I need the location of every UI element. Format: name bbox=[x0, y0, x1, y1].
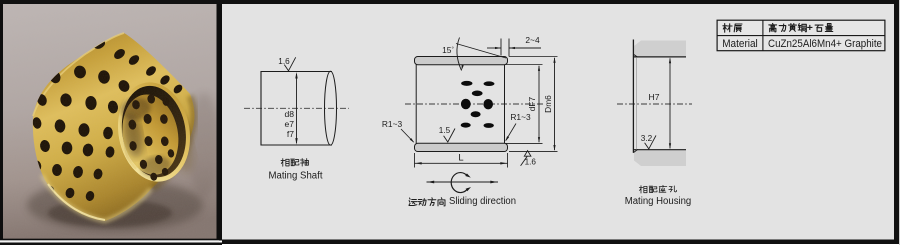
svg-text:1.6: 1.6 bbox=[525, 157, 537, 166]
svg-text:R1~3: R1~3 bbox=[510, 112, 531, 122]
svg-text:H7: H7 bbox=[649, 92, 660, 102]
svg-text:+: + bbox=[807, 22, 813, 34]
svg-text:f7: f7 bbox=[287, 129, 294, 139]
svg-text:2~4: 2~4 bbox=[525, 35, 540, 45]
svg-text:R1~3: R1~3 bbox=[382, 119, 403, 129]
svg-text:Dm6: Dm6 bbox=[543, 95, 553, 113]
svg-text:Mating Shaft: Mating Shaft bbox=[269, 170, 323, 181]
svg-text:1.6: 1.6 bbox=[278, 57, 290, 66]
svg-text:1.5: 1.5 bbox=[439, 126, 451, 135]
svg-text:CuZn25Al6Mn4+ Graphite: CuZn25Al6Mn4+ Graphite bbox=[768, 38, 882, 50]
svg-text:Sliding direction: Sliding direction bbox=[449, 196, 516, 207]
svg-text:e7: e7 bbox=[284, 119, 294, 129]
svg-text:L: L bbox=[458, 152, 463, 163]
svg-text:3.2: 3.2 bbox=[641, 134, 653, 143]
svg-text:Material: Material bbox=[722, 38, 758, 50]
svg-text:Mating Housing: Mating Housing bbox=[625, 196, 692, 207]
svg-text:dF7: dF7 bbox=[527, 96, 537, 111]
svg-text:d8: d8 bbox=[284, 109, 294, 119]
